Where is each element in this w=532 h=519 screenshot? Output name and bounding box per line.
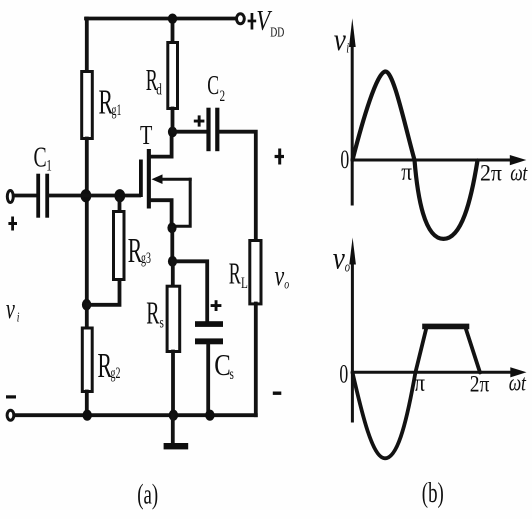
- wire gate line: [49, 194, 139, 198]
- svg-text:C: C: [207, 70, 219, 100]
- svg-text:2π: 2π: [480, 160, 502, 186]
- svg-text:g3: g3: [141, 249, 151, 267]
- label vi axis: [334, 23, 350, 57]
- label Rg2: [98, 347, 121, 385]
- node source-Cs junction: [168, 256, 177, 267]
- terminal input top: [7, 191, 13, 203]
- wire C2 to RL: [219, 132, 255, 240]
- resistor Rg1: [82, 72, 93, 139]
- svg-text:g1: g1: [112, 100, 122, 118]
- capacitor C2: [206, 108, 219, 152]
- ground: [164, 415, 189, 449]
- wire source to Cs: [173, 261, 208, 321]
- svg-text:2π: 2π: [470, 371, 490, 397]
- svg-text:s: s: [160, 314, 164, 331]
- axis vo horizontal: [352, 367, 526, 377]
- label Rs: [146, 295, 164, 331]
- wire Rs to rail: [171, 352, 175, 416]
- wire left branch lower: [85, 392, 89, 416]
- svg-text:R: R: [146, 295, 159, 331]
- node top rail junction: [168, 14, 177, 24]
- wire source down: [170, 228, 174, 261]
- axis vo vertical: [349, 238, 356, 422]
- capacitor C1: [36, 174, 49, 218]
- resistor Rs: [167, 286, 180, 351]
- wire top rail: [86, 17, 236, 21]
- svg-text:2: 2: [220, 87, 226, 104]
- node divider: [82, 299, 91, 311]
- terminal input bottom: [7, 410, 14, 420]
- label +VDD: [248, 4, 285, 40]
- wire body to source: [174, 179, 191, 226]
- wire Rd bottom: [171, 109, 175, 132]
- svg-text:t: t: [522, 161, 528, 186]
- axis vi horizontal: [352, 155, 526, 165]
- node gate-line right: [114, 189, 125, 202]
- node drain: [168, 126, 177, 137]
- curve vo clipped flat: [425, 324, 467, 330]
- node gate-line left: [81, 189, 92, 202]
- label Rd: [146, 63, 162, 98]
- svg-text:s: s: [230, 365, 234, 382]
- label Rg3: [128, 232, 151, 270]
- wire drain stub: [151, 132, 172, 157]
- wire Rg3 to divider: [88, 281, 120, 305]
- svg-text:ω: ω: [509, 371, 522, 396]
- label C2 plus: [194, 115, 205, 126]
- transistor T body arrow: [152, 174, 191, 184]
- capacitor Cs: [195, 321, 223, 344]
- label RL: [229, 256, 248, 291]
- node source: [167, 222, 176, 233]
- svg-text:v: v: [334, 23, 347, 57]
- wire RL to rail: [254, 304, 258, 416]
- wire left branch mid: [85, 139, 89, 329]
- wire input: [14, 194, 37, 198]
- svg-text:(b): (b): [422, 477, 444, 509]
- svg-text:t: t: [521, 371, 527, 396]
- label vi circuit: [6, 294, 20, 325]
- wire bottom rail: [14, 413, 256, 417]
- svg-text:o: o: [345, 258, 351, 275]
- transistor T channel bar: [147, 149, 151, 209]
- svg-text:π: π: [401, 158, 412, 186]
- node rail Rs: [169, 410, 178, 421]
- svg-text:(a): (a): [137, 479, 158, 511]
- wire Rd top: [171, 19, 175, 43]
- label omega-t bottom: [509, 371, 527, 396]
- resistor Rg2: [82, 328, 92, 392]
- svg-text:R: R: [229, 256, 241, 290]
- svg-text:i: i: [346, 39, 349, 56]
- svg-text:ω: ω: [510, 161, 523, 186]
- wire source to Rs: [171, 261, 175, 286]
- transistor T gate bar: [139, 160, 143, 198]
- node rail Cs: [205, 410, 214, 421]
- svg-text:g2: g2: [111, 364, 121, 382]
- label Rg1: [99, 84, 122, 122]
- resistor RL: [250, 241, 261, 304]
- label input minus: [6, 395, 16, 398]
- wire source stub: [151, 200, 172, 227]
- svg-text:d: d: [156, 81, 162, 98]
- terminal +VDD: [237, 14, 245, 24]
- wire Cs to rail: [206, 344, 210, 415]
- svg-text:o: o: [284, 276, 289, 292]
- curve vo wave: [353, 326, 481, 458]
- svg-text:0: 0: [340, 145, 349, 174]
- label C2: [207, 70, 225, 104]
- svg-text:DD: DD: [270, 25, 284, 40]
- label output plus: [275, 149, 284, 165]
- svg-text:L: L: [241, 274, 248, 291]
- wire left branch upper: [85, 19, 89, 72]
- svg-text:v: v: [333, 242, 346, 276]
- svg-text:i: i: [17, 309, 20, 325]
- label omega-t top: [510, 161, 528, 186]
- svg-text:v: v: [6, 294, 15, 325]
- label vo axis: [333, 242, 351, 276]
- wire drain to C2: [173, 130, 207, 134]
- resistor Rd: [168, 43, 178, 109]
- label C1: [34, 142, 52, 174]
- svg-text:π: π: [414, 369, 425, 397]
- curve vi sine: [353, 72, 478, 239]
- resistor Rg3: [114, 212, 125, 280]
- node rail Rg2: [83, 410, 92, 421]
- axis vi vertical: [349, 18, 356, 204]
- svg-text:1: 1: [46, 156, 52, 173]
- label Cs plus: [211, 300, 222, 311]
- svg-text:0: 0: [339, 359, 348, 388]
- wire Rg3 stub: [118, 199, 122, 211]
- label vo circuit: [275, 261, 290, 291]
- svg-text:C: C: [34, 142, 47, 174]
- svg-text:C: C: [214, 348, 231, 382]
- label input plus: [8, 217, 17, 231]
- label Cs: [214, 348, 234, 382]
- label output minus: [273, 392, 282, 395]
- svg-text:T: T: [140, 121, 153, 150]
- svg-text:v: v: [275, 261, 285, 291]
